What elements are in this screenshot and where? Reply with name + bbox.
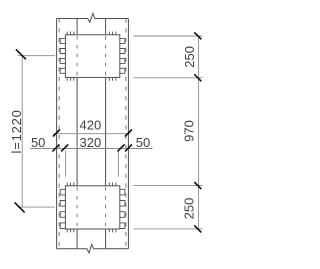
svg-text:970: 970 [181, 120, 196, 142]
svg-text:250: 250 [181, 198, 196, 220]
svg-text:50: 50 [31, 135, 45, 150]
svg-text:50: 50 [136, 135, 150, 150]
svg-text:250: 250 [182, 46, 197, 68]
svg-text:320: 320 [80, 135, 102, 150]
svg-text:l=1220: l=1220 [9, 109, 24, 153]
svg-text:420: 420 [80, 117, 102, 132]
